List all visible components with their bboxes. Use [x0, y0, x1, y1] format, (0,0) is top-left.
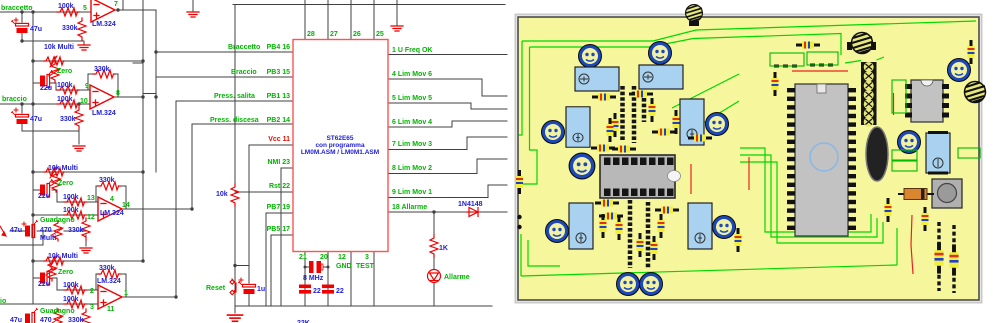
svg-text:12: 12: [87, 214, 95, 221]
wire bottom rail: [235, 305, 492, 307]
PCB nested traces bottom right: [740, 148, 897, 265]
capacitor 47u block4 bottom row: [25, 309, 38, 323]
svg-text:7: 7: [114, 1, 118, 8]
svg-text:GND: GND: [336, 263, 352, 270]
resistor 330k block3 feedback: [98, 182, 120, 190]
wire IC bottom pin 12: [350, 252, 352, 307]
svg-text:PB5 17: PB5 17: [267, 226, 290, 233]
svg-text:47u: 47u: [30, 116, 42, 123]
svg-text:26: 26: [353, 31, 361, 38]
PCB right resistor R right2: [949, 244, 958, 275]
wire IC top pin 26: [350, 0, 352, 40]
svg-text:330k: 330k: [99, 177, 115, 184]
PCB IC U5 8-pin: [905, 80, 949, 122]
ground block3: [80, 248, 92, 253]
svg-text:330k: 330k: [99, 265, 115, 272]
resistor 100k block2 upper: [57, 86, 79, 94]
PCB blue cap C3: [566, 107, 590, 147]
svg-text:10: 10: [80, 98, 88, 105]
PCB tiny resistors upper cluster: [592, 94, 616, 101]
svg-text:100k: 100k: [58, 3, 74, 10]
potentiometer Zero block2: [49, 62, 60, 82]
potentiometer left edge block3: [0, 226, 6, 236]
wire IC left pin Rst: [235, 191, 293, 193]
wire block2 feedback: [88, 74, 143, 97]
svg-text:1K: 1K: [439, 245, 448, 252]
svg-text:LM0M.ASM / LM0M1.ASM: LM0M.ASM / LM0M1.ASM: [301, 149, 379, 156]
PCB trimmer T9: [617, 273, 640, 296]
svg-text:9: 9: [85, 83, 89, 90]
capacitor 47u block3 guadagno row: [25, 221, 38, 238]
svg-text:Zero: Zero: [58, 269, 73, 276]
potentiometer 470 Multi block3: [52, 221, 63, 241]
svg-text:13: 13: [87, 195, 95, 202]
svg-text:100k: 100k: [63, 207, 79, 214]
svg-text:3: 3: [365, 254, 369, 261]
wire IC left pin NMI: [281, 168, 293, 306]
wire vertical bus x143: [142, 0, 144, 261]
resistor 330k block2 lower: [75, 107, 83, 129]
potentiometer Zero block4: [46, 261, 57, 281]
svg-text:Zero: Zero: [58, 180, 73, 187]
PCB pad columns lower cluster: [630, 200, 648, 268]
wire pin7 Lim Mov 3: [388, 137, 507, 150]
svg-text:100k: 100k: [63, 296, 79, 303]
PCB blue cap C5: [569, 203, 593, 249]
svg-text:Multi: Multi: [40, 235, 56, 242]
PCB connector strip: [861, 62, 877, 127]
svg-text:Allarme: Allarme: [444, 274, 470, 281]
resistor 100k block3 lower: [64, 211, 86, 219]
ground block1: [78, 45, 90, 50]
svg-text:6 Lim Mov 4: 6 Lim Mov 4: [392, 119, 432, 126]
svg-text:Rst 22: Rst 22: [269, 183, 290, 190]
svg-text:28: 28: [307, 31, 315, 38]
PCB trimmer T5: [948, 59, 971, 82]
svg-text:100k: 100k: [63, 282, 79, 289]
svg-text:21: 21: [299, 254, 307, 261]
svg-text:8 Lim Mov 2: 8 Lim Mov 2: [392, 165, 432, 172]
wire IC top pin 28: [304, 0, 306, 40]
svg-text:22u: 22u: [38, 193, 50, 200]
svg-text:PB3 15: PB3 15: [267, 69, 290, 76]
svg-text:470: 470: [40, 317, 52, 323]
svg-text:braccetto: braccetto: [1, 5, 33, 12]
potentiometer Zero block3: [50, 172, 61, 192]
PCB tiny resistors right area: [772, 72, 779, 96]
resistor 330k block2 feedback: [93, 70, 115, 78]
ground top x193: [187, 12, 199, 17]
resistor 100k block4 upper: [64, 286, 86, 294]
wire pin5 Lim Mov 5: [388, 103, 507, 109]
svg-text:1u: 1u: [257, 286, 265, 293]
svg-text:100k: 100k: [57, 96, 73, 103]
resistor 330k block1: [78, 18, 86, 40]
wire block4 pot row: [33, 261, 143, 304]
svg-text:330k: 330k: [60, 116, 76, 123]
svg-text:10k: 10k: [216, 191, 228, 198]
wire block4 feedback: [96, 274, 176, 297]
reset switch: [230, 279, 236, 295]
svg-text:LM.324: LM.324: [97, 278, 121, 285]
wire IC bottom pin 20: [327, 252, 329, 307]
potentiometer 10k Multi block2: [44, 56, 64, 67]
potentiometer 10k Multi block4: [44, 256, 64, 267]
op-amp U1B: [90, 85, 114, 109]
wire block3 feedback: [96, 186, 192, 209]
PCB IC U4 16-pin: [600, 155, 681, 198]
svg-text:io: io: [0, 298, 6, 305]
wire allarme branch down: [433, 212, 435, 306]
PCB electrolytic black oval: [866, 127, 888, 181]
svg-text:4: 4: [110, 196, 114, 203]
svg-text:5 Lim Mov 5: 5 Lim Mov 5: [392, 95, 432, 102]
svg-text:PB2 14: PB2 14: [267, 117, 290, 124]
PCB green stubs near connector: [845, 57, 884, 63]
svg-text:Vcc 11: Vcc 11: [268, 136, 290, 143]
resistor 100k block4 lower: [64, 300, 86, 308]
PCB blue cap C4: [680, 99, 704, 145]
resistor 330k block4 bottom: [82, 309, 90, 323]
svg-text:Zero: Zero: [57, 68, 72, 75]
svg-text:ST62E65: ST62E65: [326, 135, 353, 142]
wire jog x133: [133, 62, 143, 64]
capacitor 47u block2: [12, 112, 29, 125]
svg-text:47u: 47u: [30, 26, 42, 33]
PCB blue cap C7: [926, 131, 950, 175]
wire ground below rail: [234, 306, 236, 313]
wire pin1 U Freq OK: [388, 54, 507, 56]
svg-text:22u: 22u: [38, 281, 50, 288]
resistor 10k mid right: [231, 184, 239, 206]
wire pin4 Lim Mov 6: [388, 79, 507, 96]
PCB pads under silk rects: [774, 65, 836, 66]
capacitor 22u block3: [40, 180, 53, 197]
PCB trimmer T7: [546, 220, 569, 243]
wire pin8 Lim Mov 2: [388, 159, 507, 174]
wire pin6 Lim Mov 4: [388, 121, 507, 127]
wire IC bottom pin 21: [304, 252, 306, 307]
wire jog x143-x156: [143, 93, 156, 95]
svg-text:27: 27: [330, 31, 338, 38]
resistor 330k block3 guadagno: [82, 218, 90, 240]
capacitor 22u block4: [40, 268, 53, 285]
wire 47u C1 branch: [22, 12, 84, 44]
wire PB1 riser x176: [175, 101, 177, 297]
PCB hatched circle top: [852, 33, 873, 54]
wire pin18 Allarme: [388, 211, 507, 213]
PCB gray square relay: [932, 179, 962, 208]
op-amp U1D: [98, 285, 122, 309]
svg-text:47u: 47u: [10, 227, 22, 234]
PCB blue cap C1: [575, 67, 619, 91]
resistor 100k block2 lower: [57, 100, 79, 108]
wire opamp U1A output to top: [115, 0, 156, 10]
wire pin9 Lim Mov 1: [388, 185, 507, 198]
svg-text:PB1 13: PB1 13: [267, 93, 290, 100]
svg-text:330k: 330k: [62, 25, 78, 32]
wire IC top pin 25: [373, 0, 375, 40]
crystal 8MHz: [309, 261, 323, 273]
capacitor 22 left: [299, 285, 311, 294]
svg-text:PB4 16: PB4 16: [267, 44, 290, 51]
svg-text:18 Allarme: 18 Allarme: [392, 204, 427, 211]
wire IC left pin PB2: [192, 123, 293, 125]
wire top bus: [233, 4, 505, 6]
PCB trimmer T6: [569, 153, 595, 179]
svg-text:Guadagno: Guadagno: [40, 308, 75, 315]
svg-text:11: 11: [107, 306, 115, 313]
PCB red traces: [691, 71, 913, 274]
svg-text:8 MHz: 8 MHz: [303, 275, 324, 282]
PCB blue cap C2: [639, 65, 683, 89]
svg-text:1N4148: 1N4148: [458, 201, 483, 208]
svg-text:47u: 47u: [10, 317, 22, 323]
wire left bus x33: [32, 12, 34, 304]
svg-text:5: 5: [83, 5, 87, 12]
svg-text:LM.324: LM.324: [92, 21, 116, 28]
resistor 100k block1: [57, 8, 79, 16]
PCB trimmer T4: [706, 113, 729, 136]
op-amp U1A: [91, 0, 115, 22]
PCB trace mid diagonal: [672, 74, 739, 128]
svg-text:12: 12: [338, 254, 346, 261]
PCB tiny resistors left edge: [516, 170, 523, 194]
wire block3 guadagno row: [0, 231, 86, 246]
PCB trimmer T10: [640, 273, 663, 296]
wire IC bottom pin 3: [373, 252, 375, 307]
potentiometer 10k Multi block3: [44, 167, 64, 178]
svg-text:2: 2: [90, 288, 94, 295]
svg-text:25: 25: [376, 31, 384, 38]
texts green labels: [0, 1, 470, 315]
wire IC left pin PB1: [176, 100, 293, 102]
svg-text:Reset: Reset: [206, 285, 226, 292]
PCB tiny resistors extra: [600, 214, 607, 238]
svg-text:330k: 330k: [94, 66, 110, 73]
svg-text:14: 14: [122, 202, 130, 209]
PCB trimmer T3: [542, 121, 565, 144]
wire PB2 riser x192: [191, 124, 193, 209]
wire vertical bus x235: [234, 5, 236, 307]
ground block2: [73, 146, 85, 151]
wire IC left pin PB4: [156, 51, 293, 53]
wire IC left pin Vcc: [249, 144, 293, 146]
wire block4 lower input braccio: [0, 303, 98, 305]
capacitor 47u block1: [12, 21, 29, 34]
svg-text:10k Multi: 10k Multi: [44, 44, 74, 51]
svg-text:LM.324: LM.324: [100, 210, 124, 217]
wire braccio into U1B: [0, 103, 90, 105]
wire IC left pin PB5: [271, 235, 293, 306]
PCB trace border outer: [519, 21, 977, 276]
PCB orange diode: [898, 189, 934, 200]
svg-text:Braccetto: Braccetto: [228, 44, 260, 51]
wire reset node: [235, 145, 249, 306]
wire block2 47u branch: [22, 104, 79, 144]
plus marks on electrolytics: [14, 18, 243, 282]
op-amp U1C: [98, 197, 122, 221]
wire block3 pot row: [33, 172, 143, 215]
texts blue value labels: [10, 3, 483, 323]
ground below rail: [228, 315, 243, 321]
wire block2 pot row: [33, 61, 143, 90]
svg-text:4 Lim Mov 6: 4 Lim Mov 6: [392, 71, 432, 78]
wire crystal stubs: [305, 266, 328, 268]
PCB trimmer T1: [579, 45, 602, 68]
svg-text:PB7 19: PB7 19: [267, 204, 290, 211]
svg-text:9 Lim Mov 1: 9 Lim Mov 1: [392, 189, 432, 196]
PCB IC U3 40-pin: [787, 84, 856, 236]
svg-text:Press. discesa: Press. discesa: [210, 117, 259, 124]
wire net braccetto into U1A: [0, 11, 91, 13]
svg-text:22: 22: [336, 288, 344, 295]
PCB hatched circle top center: [686, 5, 703, 22]
wire block3 lower input: [33, 214, 98, 216]
PCB trimmer T11: [898, 131, 921, 154]
svg-text:330k: 330k: [68, 317, 84, 323]
svg-text:Press. salita: Press. salita: [214, 93, 255, 100]
wire IC left pin PB7: [266, 213, 293, 306]
capacitor 22u block2: [40, 71, 53, 88]
PCB board: [518, 17, 979, 300]
resistor 1K: [430, 235, 438, 257]
svg-text:100k: 100k: [57, 82, 73, 89]
LED Allarme: [428, 270, 441, 283]
wire vertical bus x156: [155, 10, 157, 172]
svg-text:LM.324: LM.324: [92, 110, 116, 117]
svg-text:1: 1: [124, 290, 128, 297]
capacitor 1u: [239, 282, 256, 295]
PCB trimmer T2: [649, 42, 672, 65]
svg-text:Braccio: Braccio: [231, 69, 257, 76]
svg-text:22: 22: [313, 288, 321, 295]
PCB pad columns right cluster: [939, 222, 954, 293]
wire IC top pin 27: [327, 0, 329, 40]
svg-text:100k: 100k: [63, 194, 79, 201]
ground top x397: [391, 26, 403, 31]
svg-text:3: 3: [90, 304, 94, 311]
diode 1N4148: [467, 208, 479, 217]
svg-text:TEST: TEST: [356, 263, 375, 270]
PCB right resistor R right1: [934, 242, 943, 273]
PCB hatched circle right: [965, 82, 986, 103]
PCB pad columns upper cluster: [623, 86, 645, 143]
potentiometer 470 block4 bottom: [52, 309, 63, 323]
PCB trimmer T8: [713, 216, 736, 239]
svg-text:Guadagno: Guadagno: [40, 217, 75, 224]
svg-text:7 Lim Mov 3: 7 Lim Mov 3: [392, 141, 432, 148]
svg-text:1 U Freq OK: 1 U Freq OK: [392, 47, 432, 54]
PCB blue cap C6: [688, 203, 712, 249]
wire ground stub near x193: [192, 0, 194, 11]
svg-text:NMI 23: NMI 23: [267, 159, 290, 166]
svg-text:10k Multi: 10k Multi: [48, 165, 78, 172]
wire IC left pin PB3: [156, 76, 293, 78]
PCB tiny resistors lower cluster: [595, 200, 619, 207]
svg-text:20: 20: [320, 254, 328, 261]
svg-text:330k: 330k: [68, 227, 84, 234]
PCB hatched circle side tabs: [847, 42, 852, 50]
PCB board shadow: [516, 15, 982, 303]
IC U2 ST62E65: [293, 40, 388, 252]
wire ground stub near x397: [396, 0, 398, 25]
svg-text:22u: 22u: [40, 85, 52, 92]
capacitor 22 right: [322, 285, 334, 294]
PCB green silk rects: [770, 52, 980, 171]
resistor 100k block3 upper: [64, 198, 86, 206]
svg-text:braccio: braccio: [2, 96, 27, 103]
resistor 330k block4 feedback: [98, 270, 120, 278]
svg-text:con programma: con programma: [315, 142, 365, 149]
svg-text:470: 470: [40, 227, 52, 234]
svg-text:8: 8: [116, 90, 120, 97]
svg-text:10k Multi: 10k Multi: [48, 253, 78, 260]
